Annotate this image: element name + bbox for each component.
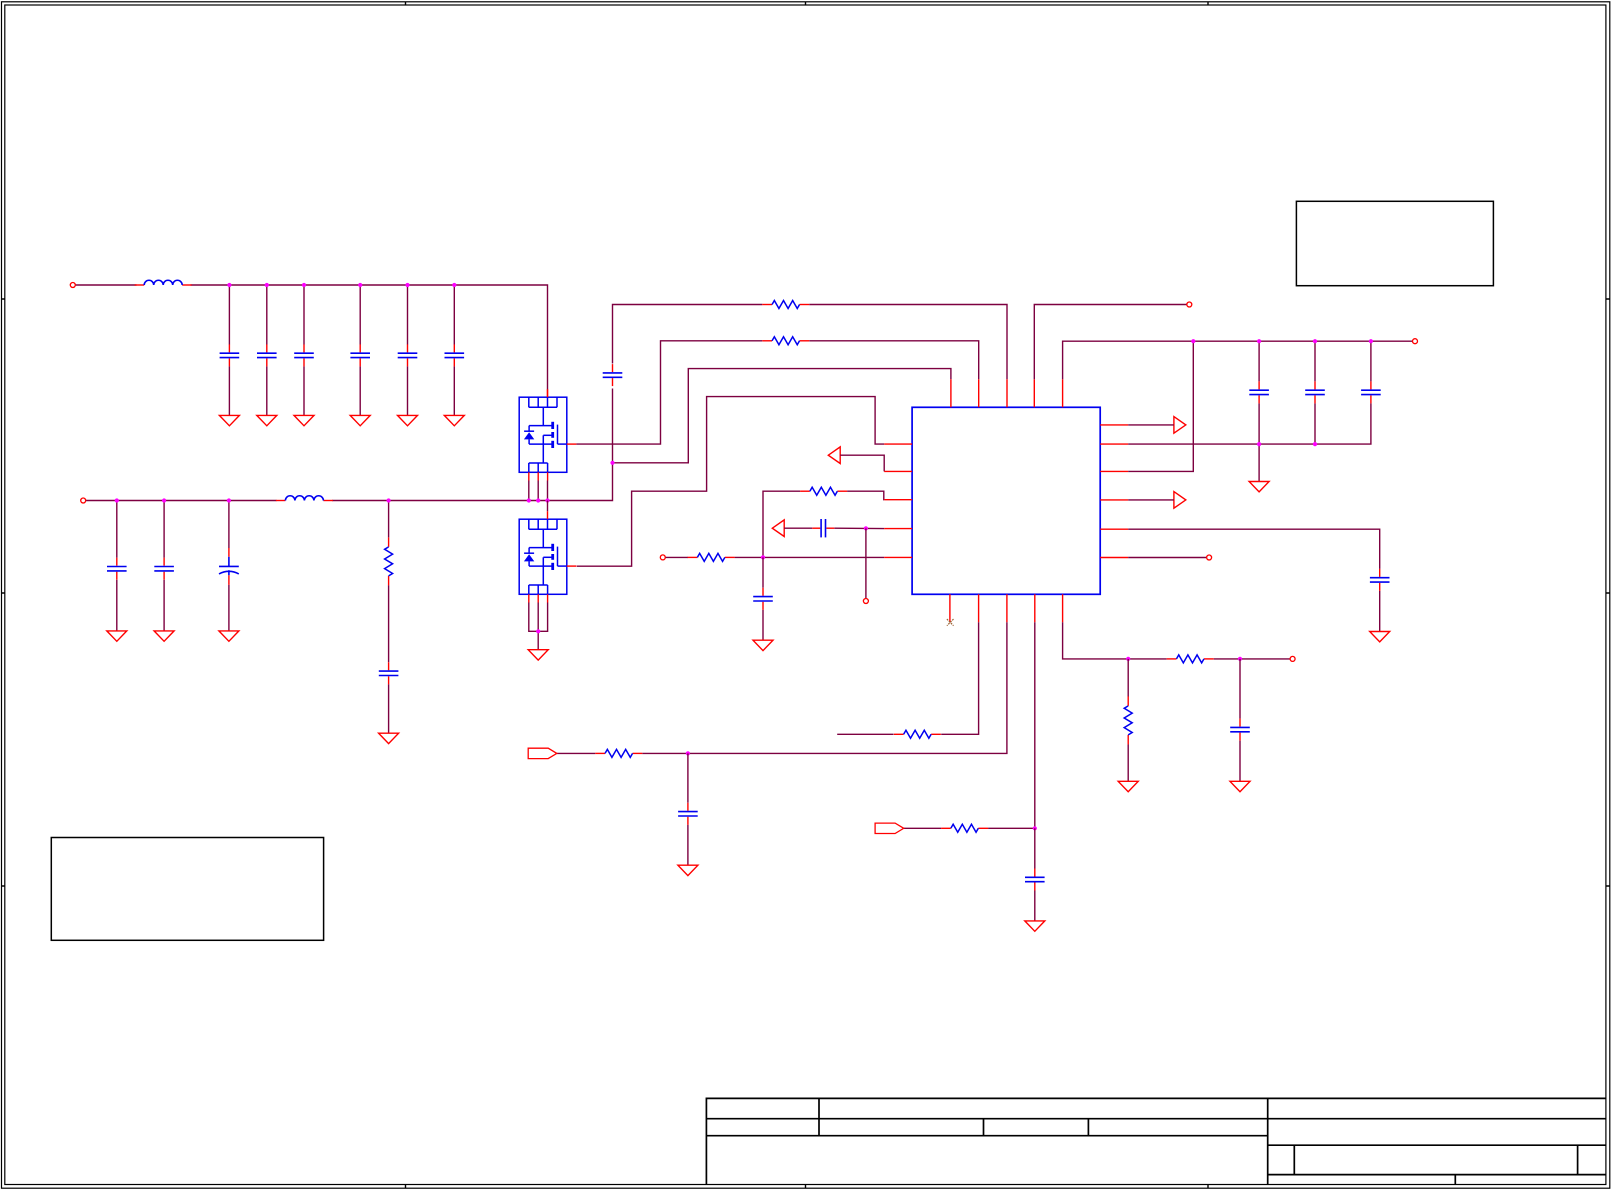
capacitor C14 bbox=[1249, 381, 1269, 403]
node junction top rail 5 bbox=[405, 283, 409, 287]
wire IC R4 to arrow bbox=[1128, 499, 1174, 501]
title block divider vertical main bbox=[1267, 1098, 1269, 1184]
wire cap drop C16 bbox=[1370, 341, 1372, 381]
ground bbox=[398, 415, 418, 425]
ground bbox=[678, 865, 698, 875]
node junction rail Q1 s1 bbox=[527, 498, 531, 502]
capacitor C7 bbox=[107, 558, 127, 580]
resistor R9 bbox=[1167, 655, 1214, 663]
node junction RT2 bbox=[1238, 657, 1242, 661]
node junction lower rail 1 bbox=[115, 498, 119, 502]
title block row line right 4 bbox=[1268, 1174, 1606, 1176]
capacitor C19 bbox=[1025, 869, 1045, 891]
wire comp node to terminal bbox=[865, 528, 867, 598]
pin U1 top pins red bbox=[951, 379, 1063, 407]
wire R4 feedback to IC pin L3 bbox=[763, 491, 884, 557]
node junction top rail 3 bbox=[302, 283, 306, 287]
wire IC R2 to cap bank bottom bbox=[1128, 403, 1371, 444]
ground bbox=[379, 733, 399, 743]
wire cap drop C1 bbox=[228, 285, 230, 415]
capacitor C3 bbox=[294, 344, 314, 366]
arrow SW1 right bbox=[1174, 417, 1186, 434]
node junction EN bbox=[1033, 826, 1037, 830]
pin U1 right pins red bbox=[1100, 425, 1128, 558]
wire Q2 source merge to ground bbox=[529, 603, 548, 650]
title block row line 3 left bbox=[706, 1135, 1267, 1137]
node junction rail Q1 s3 bbox=[545, 498, 549, 502]
wire VIN top rail bbox=[75, 285, 547, 390]
pin U1 bottom pins red bbox=[950, 594, 1063, 622]
node junction top rail 1 bbox=[227, 283, 231, 287]
node junction rail B bbox=[1257, 339, 1261, 343]
border zone ticks bottom bbox=[406, 1185, 1209, 1189]
capacitor C1 bbox=[220, 344, 240, 366]
no-connect X mark bbox=[947, 619, 954, 626]
inductor L1 bbox=[135, 280, 192, 285]
border zone ticks top bbox=[406, 2, 1209, 5]
node junction boot bbox=[610, 461, 614, 465]
wire IC R5 to C17 ground bbox=[1128, 529, 1380, 631]
ground bbox=[528, 650, 548, 660]
capacitor C6 bbox=[445, 344, 465, 366]
wire lower rail VOUT bbox=[86, 305, 1007, 501]
node junction rail Q1 s2 bbox=[536, 498, 540, 502]
node junction top rail 2 bbox=[265, 283, 269, 287]
wire Q2 gate to IC pin L1 bbox=[577, 397, 884, 567]
node junction RT1 bbox=[1126, 657, 1130, 661]
capacitor C15 bbox=[1305, 381, 1325, 403]
wire IC B4 to flag EN bbox=[904, 622, 1035, 828]
wire IC B2 to R6 dangle bbox=[837, 622, 978, 734]
ground bbox=[1230, 781, 1250, 791]
wire R1 to C10 bbox=[388, 501, 390, 734]
capacitor C16 bbox=[1361, 381, 1381, 403]
ground bbox=[1118, 781, 1138, 791]
title block cell divider d bbox=[1293, 1145, 1295, 1174]
title block cell divider c bbox=[1087, 1119, 1089, 1136]
node junction top rail 4 bbox=[358, 283, 362, 287]
capacitor C18 bbox=[678, 803, 698, 825]
node junction rail A bbox=[1191, 339, 1195, 343]
ground bbox=[294, 415, 314, 425]
node junction FB bbox=[761, 555, 765, 559]
wire IC R1 to arrow bbox=[1128, 424, 1174, 426]
resistor R7 bbox=[595, 749, 642, 757]
node junction rail D bbox=[1369, 339, 1373, 343]
transistor module Q2 low-side MOSFET bbox=[519, 511, 576, 602]
wire Q1 source leads to rail bbox=[529, 481, 548, 501]
capacitor C13 series bbox=[812, 519, 834, 537]
node junction rail C bbox=[1313, 339, 1317, 343]
capacitor C20 bbox=[1230, 719, 1250, 741]
wire IC B3 to flag PGOOD bbox=[557, 622, 1007, 753]
wire RT2 to C20 ground bbox=[1239, 659, 1241, 781]
ground bbox=[753, 640, 773, 650]
node junction PG bbox=[686, 751, 690, 755]
terminal VCC bbox=[1413, 339, 1418, 344]
flag EN bbox=[875, 823, 904, 833]
capacitor C17 bbox=[1370, 569, 1390, 591]
terminal SS bbox=[1207, 555, 1212, 560]
node junction capline B bbox=[1257, 442, 1261, 446]
ground bbox=[444, 415, 464, 425]
wire IC B5 rail RT bbox=[1063, 622, 1290, 659]
wire RT1 to R10 ground bbox=[1127, 659, 1129, 781]
node junction capline C bbox=[1313, 442, 1317, 446]
terminal VIN bbox=[70, 283, 75, 288]
wire cap drop C6 bbox=[453, 285, 455, 415]
terminal VOUT bbox=[81, 498, 86, 503]
wire EN node to C19 ground bbox=[1034, 828, 1036, 921]
wire terminal to R5 to IC pin L5 bbox=[665, 556, 884, 558]
note box top right bbox=[1296, 201, 1493, 285]
ground bbox=[107, 631, 127, 641]
terminal FB bbox=[660, 555, 665, 560]
transistor module Q1 high-side MOSFET bbox=[519, 389, 576, 480]
resistor R2 gate bbox=[762, 337, 809, 345]
wire cap drop C3 bbox=[303, 285, 305, 415]
arrow SW2 right bbox=[1174, 492, 1186, 509]
capacitor C10 bbox=[379, 662, 399, 684]
wire arrow EN to IC pin L2 bbox=[840, 455, 884, 471]
terminal RT bbox=[1290, 656, 1295, 661]
wire cap drop C14 bbox=[1258, 341, 1260, 481]
capacitor C5 bbox=[398, 344, 418, 366]
wire cap drop C7 bbox=[116, 501, 118, 631]
wire IC R6 to terminal bbox=[1128, 557, 1206, 559]
note box bottom left bbox=[51, 838, 323, 941]
wire cap drop C8 bbox=[163, 501, 165, 631]
wire arrow to C13 to IC pin L4 bbox=[784, 527, 884, 529]
capacitor C8 bbox=[154, 558, 174, 580]
arrow COMP left bbox=[772, 520, 784, 537]
ground bbox=[1370, 632, 1390, 642]
wire cap drop C5 bbox=[407, 285, 409, 415]
ground bbox=[1025, 921, 1045, 931]
ground bbox=[1249, 482, 1269, 492]
resistor R5 bbox=[688, 553, 735, 561]
wire cap drop C15 bbox=[1314, 341, 1316, 444]
title block cell divider b bbox=[983, 1119, 985, 1136]
wire PG node to C18 ground bbox=[687, 753, 689, 865]
terminal COMP bbox=[863, 599, 868, 604]
terminal BST bbox=[1187, 302, 1192, 307]
resistor R1 divider bbox=[385, 537, 393, 585]
resistor R10 bbox=[1124, 696, 1132, 744]
node junction lower rail 4 bbox=[387, 498, 391, 502]
wire Q2 drain from rail bbox=[547, 501, 549, 512]
node junction comp bbox=[864, 526, 868, 530]
wire VCC rail top right bbox=[1063, 341, 1413, 379]
capacitor C9 polarized bbox=[219, 548, 239, 585]
title block cell divider e bbox=[1577, 1145, 1579, 1174]
capacitor C4 bbox=[350, 344, 370, 366]
wire IC T4 to terminal bbox=[1034, 305, 1186, 380]
ground bbox=[154, 631, 174, 641]
ground bbox=[350, 415, 370, 425]
resistor R3 boot bbox=[762, 301, 809, 309]
wire VIN pin red to Q1 bbox=[547, 390, 549, 398]
title block row line 2 bbox=[706, 1118, 1606, 1120]
node junction lower rail 2 bbox=[162, 498, 166, 502]
ground bbox=[257, 415, 277, 425]
title block outline bbox=[706, 1098, 1606, 1184]
op-amp U1 regulator IC body bbox=[912, 407, 1100, 594]
wire cap drop C2 bbox=[266, 285, 268, 415]
capacitor C12 bbox=[753, 588, 773, 610]
wire FB node to C12 to ground bbox=[762, 557, 764, 640]
wire Q1 gate to R2 to IC pin T2 bbox=[576, 341, 978, 444]
capacitor C11 bootstrap bbox=[603, 364, 623, 386]
wire vertical rail to IC R3 bbox=[1128, 341, 1193, 471]
border zone ticks left bbox=[2, 299, 5, 886]
wire cap drop C9 bbox=[228, 501, 230, 631]
ground bbox=[219, 631, 239, 641]
node junction Q2 source bbox=[536, 629, 540, 633]
flag PGOOD bbox=[528, 748, 557, 758]
title block row line right 3 bbox=[1268, 1144, 1606, 1146]
wire boot node to IC pin T1 bbox=[613, 369, 951, 463]
inductor L2 bbox=[276, 496, 333, 501]
node junction top rail 6 bbox=[452, 283, 456, 287]
border zone ticks right bbox=[1606, 299, 1610, 886]
wire cap drop C4 bbox=[359, 285, 361, 415]
resistor R6 bbox=[894, 730, 941, 738]
pin U1 left pins red bbox=[884, 444, 912, 557]
arrow EN left bbox=[828, 447, 840, 464]
ground bbox=[219, 415, 239, 425]
resistor R8 bbox=[941, 824, 988, 832]
resistor R4 bbox=[800, 487, 847, 495]
title block cell divider f bbox=[1454, 1175, 1456, 1185]
title block cell divider a bbox=[818, 1098, 820, 1135]
capacitor C2 bbox=[257, 344, 277, 366]
node junction lower rail 3 bbox=[227, 498, 231, 502]
